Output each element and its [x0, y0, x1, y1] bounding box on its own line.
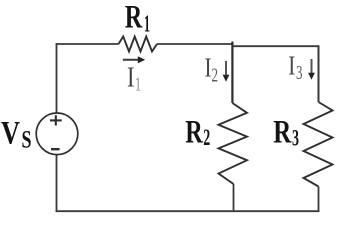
svg-text:R: R: [273, 115, 292, 151]
svg-text:S: S: [22, 127, 32, 154]
wire top-middle horizontal: [157, 43, 233, 45]
minus sign: [51, 148, 60, 150]
wire R3 top lead: [318, 45, 320, 102]
resistor R1: [119, 37, 158, 52]
voltage source VS circle: [36, 113, 78, 155]
svg-text:2: 2: [203, 125, 210, 150]
wire left vertical lower: [56, 155, 58, 213]
wire R2 bottom lead: [233, 184, 235, 212]
svg-text:I: I: [127, 61, 135, 93]
current arrow I3: [311, 59, 313, 74]
wire bottom horizontal: [56, 210, 320, 212]
current arrow I2: [225, 61, 227, 76]
wire left vertical upper: [56, 43, 58, 113]
svg-text:1: 1: [135, 74, 141, 96]
resistor R2: [219, 103, 248, 184]
wire R3 bottom lead: [318, 187, 320, 213]
svg-text:R: R: [185, 115, 203, 151]
svg-text:R: R: [125, 0, 143, 36]
current arrow I1: [123, 59, 139, 61]
svg-text:V: V: [1, 116, 20, 152]
resistor R3: [304, 102, 333, 187]
svg-text:2: 2: [212, 65, 219, 87]
node junction R2 branch: [231, 42, 233, 104]
svg-text:3: 3: [296, 62, 303, 84]
svg-text:I: I: [288, 51, 295, 81]
svg-text:I: I: [205, 53, 212, 83]
svg-text:3: 3: [292, 126, 299, 151]
wire top-left horizontal: [56, 43, 119, 45]
svg-text:1: 1: [144, 12, 150, 38]
wire top-right horizontal: [232, 45, 319, 47]
plus sign: [50, 119, 62, 121]
